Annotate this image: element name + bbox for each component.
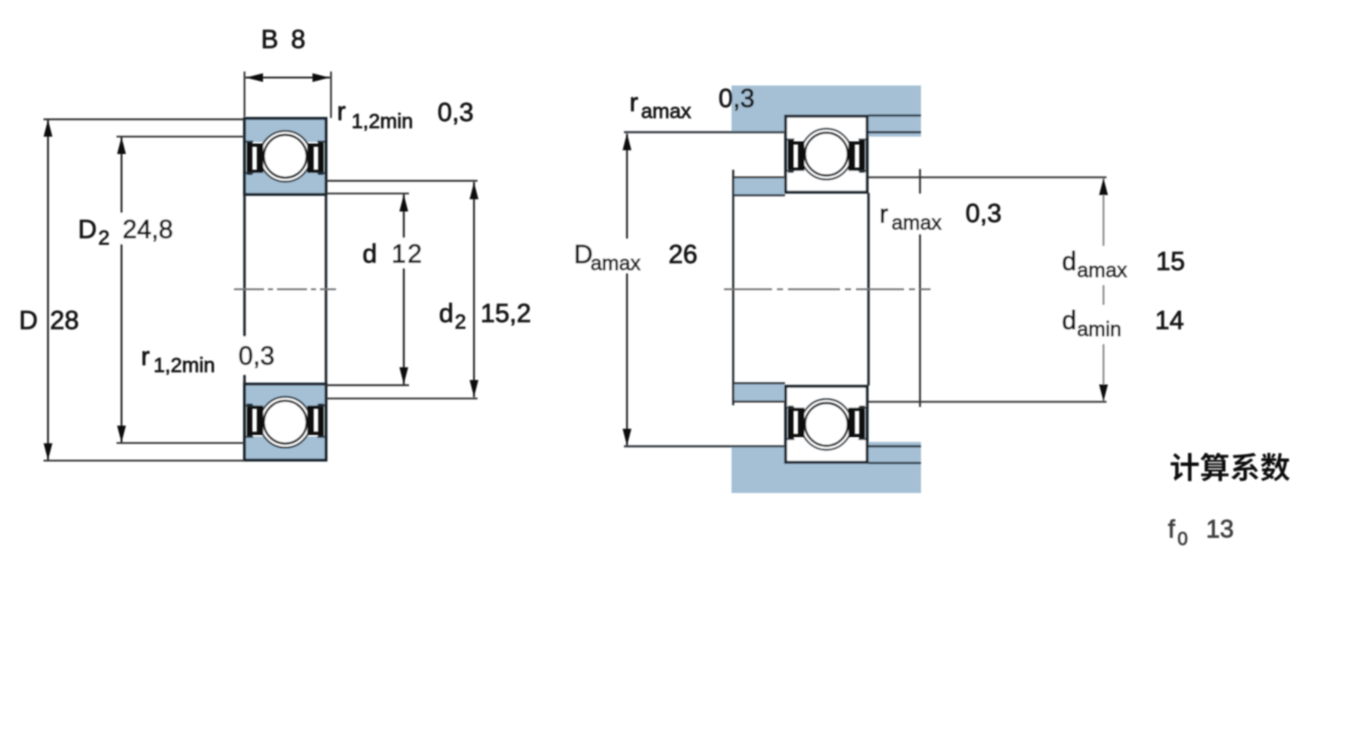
- svg-text:0: 0: [1178, 528, 1188, 549]
- mounted bearing with shaft and housing (right figure): [624, 86, 1107, 494]
- label r_amax 0,3 (top, housing fillet): [630, 83, 755, 123]
- centerline left figure: [234, 288, 336, 290]
- dimension d2 15,2 (seal recess diameter): [326, 181, 531, 399]
- svg-text:r: r: [880, 199, 889, 229]
- svg-text:d: d: [439, 298, 453, 328]
- svg-text:B: B: [261, 24, 278, 54]
- svg-text:d: d: [1062, 305, 1076, 335]
- bearing right face line: [325, 193, 328, 386]
- dimension B (width): [245, 24, 332, 118]
- shaft right cut line: [919, 169, 921, 407]
- svg-text:2: 2: [98, 227, 109, 250]
- shaft shoulder lower strip: [734, 384, 784, 401]
- shaft seat surface lines: [733, 194, 785, 196]
- housing section bottom band: [732, 463, 922, 493]
- centerline right figure: [724, 288, 931, 290]
- label r_amax 0,3 (middle, shaft fillet): [875, 194, 1002, 235]
- bearing section view (left figure): [234, 118, 336, 460]
- heading 计算系数 (calculation factors): [1171, 453, 1290, 482]
- svg-text:0,3: 0,3: [719, 83, 755, 113]
- bearing left face line: [243, 193, 246, 386]
- shaft surface lines d_a level: [733, 176, 784, 178]
- svg-text:26: 26: [669, 239, 698, 269]
- bearing lower half section (mounted): [786, 386, 868, 462]
- svg-text:D: D: [78, 214, 97, 244]
- label r1,2min 0,3 (top right of bearing): [337, 96, 474, 133]
- bearing upper half section: [245, 118, 327, 194]
- svg-text:amax: amax: [1077, 259, 1128, 282]
- svg-text:0,3: 0,3: [438, 97, 474, 127]
- svg-text:1,2min: 1,2min: [154, 354, 216, 377]
- dimension D2 24,8 (recess diameter): [78, 137, 245, 443]
- svg-text:12: 12: [392, 239, 424, 269]
- shaft step face behind bearing: [867, 193, 869, 386]
- svg-text:8: 8: [291, 24, 305, 54]
- svg-text:d: d: [363, 239, 377, 269]
- svg-text:13: 13: [1206, 516, 1234, 544]
- bearing lower half section: [245, 384, 327, 460]
- svg-text:r: r: [630, 87, 639, 117]
- svg-text:d: d: [1062, 246, 1076, 276]
- svg-text:r: r: [141, 341, 150, 371]
- bearing upper half section (mounted): [786, 116, 868, 192]
- svg-text:15,2: 15,2: [481, 298, 532, 328]
- label r1,2min 0,3 (lower left, bore chamfer): [141, 337, 279, 378]
- svg-text:amax: amax: [892, 212, 943, 235]
- svg-text:f: f: [1168, 516, 1175, 544]
- svg-text:0,3: 0,3: [239, 341, 275, 371]
- shaft shoulder upper strip: [734, 178, 784, 195]
- housing bore lines: [869, 114, 922, 116]
- svg-text:amax: amax: [641, 100, 692, 123]
- svg-text:0,3: 0,3: [966, 198, 1002, 228]
- svg-text:14: 14: [1155, 305, 1184, 335]
- svg-text:D: D: [19, 305, 38, 335]
- dimension d_amax 15 / d_amin 14 (shaft abutment diameters): [1056, 178, 1185, 402]
- svg-text:2: 2: [455, 311, 466, 334]
- svg-text:15: 15: [1156, 246, 1185, 276]
- factor f0 13: [1168, 516, 1234, 550]
- shaft abutment face (left cut line): [732, 170, 734, 405]
- svg-text:amin: amin: [1077, 318, 1121, 341]
- dimension d 12 (bore diameter): [326, 194, 426, 386]
- dimension D_amax 26 (housing shoulder diameter): [570, 133, 697, 446]
- svg-text:1,2min: 1,2min: [352, 110, 414, 133]
- svg-text:r: r: [337, 96, 346, 126]
- svg-text:amax: amax: [591, 252, 642, 275]
- svg-text:28: 28: [50, 305, 79, 335]
- housing shoulder lines: [624, 131, 784, 133]
- housing section top band: [732, 86, 922, 116]
- dimension D 28 (outer diameter): [19, 119, 245, 460]
- svg-text:24,8: 24,8: [123, 214, 174, 244]
